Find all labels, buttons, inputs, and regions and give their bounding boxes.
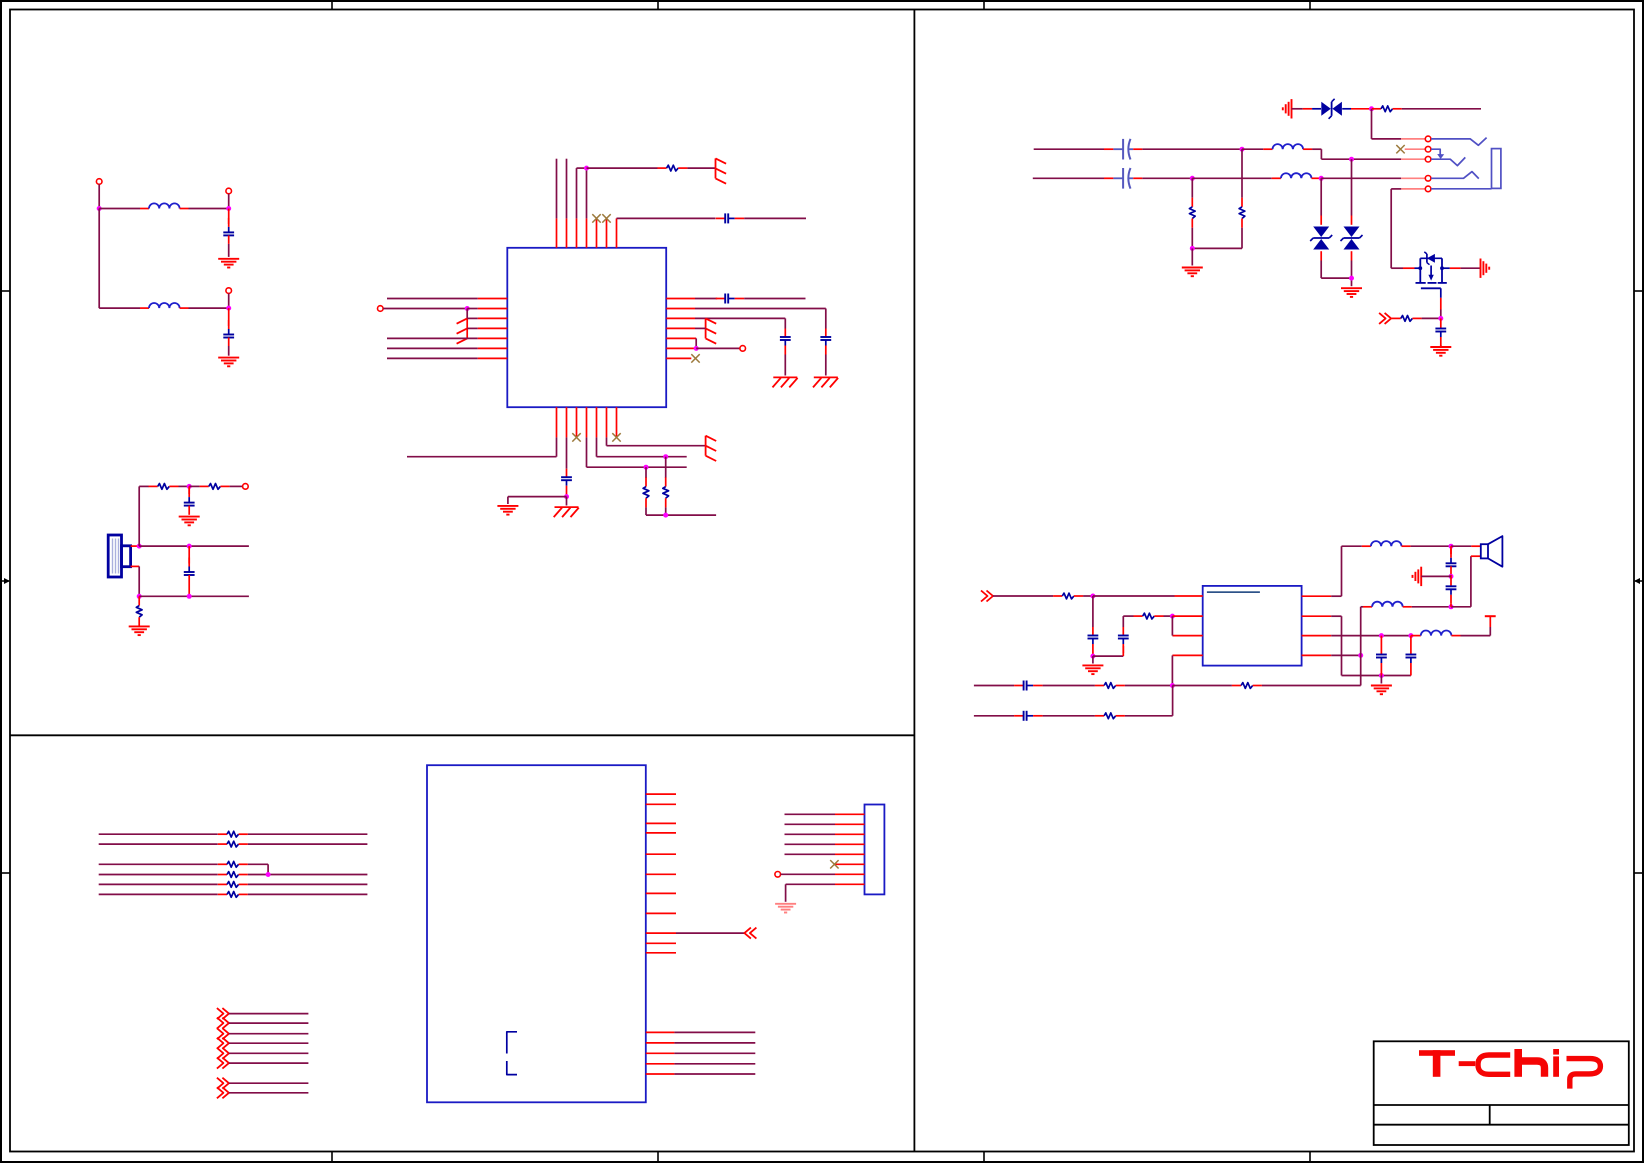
capacitor C14 (1118, 616, 1129, 656)
ground GND15 (1371, 686, 1392, 695)
wire node A1 to L1 (99, 208, 140, 210)
wire U1 bottom pin4 elbow (587, 437, 687, 467)
wire C14 top elbow to R12 (1123, 615, 1133, 617)
U1 left pins (478, 299, 508, 359)
wire node E2 to C14 (1093, 655, 1123, 657)
resistor R16 (218, 831, 248, 837)
junction node E6 (1379, 673, 1384, 678)
no-connect X CN1 pin6 (830, 860, 838, 868)
inductor L5 (1362, 541, 1411, 546)
U1 right pin7 no-connect (666, 354, 700, 362)
junction node E7 (1379, 633, 1384, 638)
inductor L6 (1421, 630, 1461, 635)
ground GND13 (1430, 347, 1451, 356)
border zone ticks bottom (332, 1152, 1310, 1163)
wire R10 to node D8 (1422, 317, 1441, 319)
wire U1 right row5 elbow (666, 338, 696, 348)
wire rail2 left (974, 715, 1014, 717)
capacitor C9 (561, 469, 572, 497)
junction node B1 (187, 484, 192, 489)
wire node C4 left elbow (508, 497, 567, 504)
wire L7 to node E10 (1412, 606, 1451, 608)
capacitor C16 (1014, 711, 1043, 721)
wire P2 to node A2 (228, 194, 230, 209)
capacitor C2 (223, 308, 234, 356)
wire U3 lower row3 (674, 1052, 755, 1054)
jack J1 switch arrow (1431, 149, 1444, 159)
wire L6 to T-power (1461, 635, 1491, 637)
wire row B left (1033, 177, 1104, 179)
op-amp U1 body (507, 248, 666, 407)
wire CN1 row1 (785, 813, 836, 815)
junction node E3 (1170, 614, 1175, 619)
sheet entry chevron F2 (217, 1018, 229, 1029)
wire entry G1 (229, 1082, 309, 1084)
wire U1 right row4 stub (695, 327, 706, 329)
wire U1 right row3 elbow (695, 318, 785, 328)
wire Q1 source to ground (1442, 267, 1481, 269)
resistor R1 (149, 484, 179, 490)
wire L5 to node E5 (1411, 545, 1451, 547)
wire P5 to node C2 (383, 308, 467, 310)
wire node D1 to L3 (1242, 148, 1263, 150)
capacitor C19 (1446, 546, 1457, 575)
wire node B1 to R2 (189, 485, 199, 487)
transistor Q1 mosfet (1415, 252, 1447, 298)
jack J1 contact hook3 (1431, 157, 1465, 165)
wire U1 right row2 elbow (695, 309, 826, 329)
wire R12 to node E3 (1164, 615, 1173, 617)
wire node B2 up to top rail (138, 486, 140, 546)
amplifier U2 body (1203, 586, 1302, 666)
jack J1 contact hook4 (1431, 172, 1479, 179)
sheet entry chevrons IN2 (981, 591, 993, 602)
resistor R3 (136, 596, 142, 626)
ground GND17 salmon (775, 904, 796, 913)
wire U3 lower row2 (674, 1042, 755, 1044)
wire C10 to node D1 (1142, 148, 1242, 150)
wire bus row6 right (248, 893, 368, 895)
wire C16 to R15 (1043, 715, 1095, 717)
U2 pin4 drop (1172, 655, 1202, 685)
power bar PWR2 on left pins (457, 309, 468, 344)
MCU U3 body (427, 765, 646, 1102)
sheet entry chevron F5 (217, 1048, 229, 1059)
resistor R12 (1134, 613, 1164, 619)
wire CN1 row4 (785, 843, 836, 845)
wire top rail corner (139, 485, 149, 487)
wire R7 R8 bottom rail (1192, 247, 1242, 249)
wire U1 bottom pin5 elbow (597, 437, 687, 456)
wire bus row1 right (248, 833, 368, 835)
junction node B2 (137, 544, 142, 549)
wire U1 right row1 to C6 (695, 298, 717, 300)
wire C19 to node E11 (1450, 575, 1452, 577)
power bar T1 (1485, 616, 1496, 635)
wire C11 to node D3 (1142, 177, 1192, 179)
resistor R7 (1239, 149, 1245, 248)
sheet entry chevrons IN1 (1379, 313, 1391, 324)
junction node D1 (1240, 147, 1245, 152)
wire bus row3 left (99, 863, 218, 865)
jack J1 pin5 lead (1431, 188, 1492, 190)
junction node C3 (694, 346, 699, 351)
port P1 (96, 179, 102, 185)
wire node D6 down to jack pin1 (1372, 109, 1402, 139)
diode D2 TVS (1310, 178, 1351, 278)
wire U1 left row6 (387, 347, 478, 349)
junction node A3 (226, 306, 231, 311)
junction node D2 (1349, 157, 1354, 162)
wire P1 to node A1 (98, 184, 100, 208)
wire U3 pin9 out (676, 932, 744, 934)
jack J1 pin2 no-connect (1396, 145, 1425, 153)
wire top rail to L5 (1342, 545, 1362, 547)
ground GND11 (1341, 288, 1362, 297)
wire node C3 to port P6 (696, 347, 740, 349)
capacitor C13 (1088, 627, 1099, 655)
wire C15 to R13 (1043, 685, 1095, 687)
junction node E9 (1358, 653, 1363, 658)
wire node D4 to jack pin4 (1321, 177, 1401, 179)
junction node E4 (1170, 683, 1175, 688)
wire node B2 right (139, 545, 249, 547)
port P5 (378, 306, 384, 312)
border zone ticks right (1634, 291, 1643, 873)
title block row line1 (1374, 1104, 1629, 1106)
U1 top pins (557, 218, 617, 247)
wire R1 to node B1 (179, 485, 190, 487)
wire C6 right (744, 298, 805, 300)
wire U3 lower row1 (674, 1031, 755, 1033)
wire bus row2 right (248, 843, 368, 845)
U1 right pins (666, 299, 695, 349)
pin LS1 bottom (131, 565, 140, 567)
title block frame (1374, 1041, 1629, 1145)
U2 right pin2 drop (1302, 616, 1342, 675)
power bar PWR4 (706, 436, 717, 461)
sheet entry chevron F6 (217, 1058, 229, 1069)
wire GND10 to D1 diode (1292, 108, 1322, 110)
resistor R18 (218, 861, 248, 867)
U3 bracket graphic bottom (507, 1061, 517, 1075)
title block row line2 (1374, 1124, 1629, 1126)
junction node E8 (1408, 633, 1413, 638)
wire node E5 to speaker (1451, 545, 1481, 547)
ground GND14 (1082, 665, 1103, 674)
wire U3 lower row5 (674, 1073, 755, 1075)
ground GND12 rotated (1481, 259, 1490, 278)
junction node A1 (97, 206, 102, 211)
inductor L3 (1263, 144, 1312, 149)
wire U1 bottom pin2 drop (566, 437, 568, 468)
wire entry F3 (229, 1033, 309, 1035)
resistor R13 (1095, 683, 1125, 689)
ground GND9 (1182, 268, 1203, 277)
junction node E5 (1449, 544, 1454, 549)
wire C5 right (744, 217, 806, 219)
jack J1 pin1 (1401, 138, 1425, 140)
wire entry F4 (229, 1042, 309, 1044)
pin LS1 top (131, 545, 140, 547)
jack J1 pin5 (1401, 188, 1425, 190)
title block column line (1489, 1105, 1491, 1125)
inductor L1 (140, 203, 189, 208)
wire Q1 gate down (1440, 298, 1442, 319)
U2 pin3 riser (1172, 616, 1202, 636)
inductor L7 (1363, 602, 1412, 607)
wire pin2 rail right (1342, 675, 1411, 677)
capacitor C17 (1376, 636, 1387, 676)
center arrow left edge (1, 578, 10, 584)
wire U1 top pin4 riser (586, 168, 588, 218)
inductor L2 (99, 303, 188, 308)
wire bus row5 right (248, 883, 368, 885)
resistor R11 (1053, 593, 1083, 599)
U2 right pin1 riser (1302, 546, 1342, 596)
resistor R9 (1372, 106, 1402, 112)
wire bottom rail of R5 R6 (646, 514, 716, 516)
wire R4 to power bar (687, 167, 715, 169)
junction node C5b (644, 465, 649, 470)
wire CN1 row5 (785, 853, 836, 855)
wire U1 top pin7 elbow (617, 217, 716, 219)
port P7 (775, 872, 781, 878)
resistor R6 (663, 457, 669, 515)
ground GND4 (129, 626, 150, 635)
port P4 (243, 484, 249, 490)
junction node F1 (266, 872, 271, 877)
sheet entry chevron F4 (217, 1038, 229, 1049)
wire L1 to node A2 (189, 208, 229, 210)
wire node E6 ground stub (1380, 676, 1382, 684)
resistor R8 (1189, 178, 1195, 248)
wire U1 top pin1 stub (556, 159, 558, 219)
junction node C6b (663, 454, 668, 459)
no-connect X bottom pin7 (612, 433, 620, 441)
power bar PWR3 (706, 318, 717, 343)
wire entry F2 (229, 1022, 309, 1024)
resistor R2 (200, 484, 230, 490)
junction node D6 (1369, 106, 1374, 111)
wire row3 elbow to row4 (248, 864, 268, 874)
junction node D8 (1438, 316, 1443, 321)
connector CN1 pins (835, 814, 865, 884)
wire bus row1 left (99, 833, 218, 835)
U3 right pins (646, 794, 676, 953)
jack J1 pin3 (1401, 158, 1425, 160)
wire L3 elbow down (1312, 149, 1401, 159)
U2 right pin4 row (1302, 654, 1361, 656)
capacitor C8 (780, 329, 791, 376)
ground GND5 slashed (813, 377, 838, 387)
wire entry F6 (229, 1062, 309, 1064)
ground GND10 rotated (1283, 99, 1292, 118)
junction node A2 (226, 206, 231, 211)
connector CN1 body (865, 805, 885, 895)
wire R11 to node E1 (1083, 595, 1093, 597)
wire entry F1 (229, 1013, 309, 1015)
wire U1 left row3 stub (467, 317, 478, 319)
wire U1 left row7 (387, 357, 478, 359)
jack J1 contact hook1 (1431, 138, 1487, 146)
wire U1 top pin2 stub (566, 159, 568, 219)
wire GND16 to node E11 (1421, 575, 1451, 577)
wire node C4 down stub (566, 497, 568, 506)
wire bus row4 left (99, 874, 218, 876)
capacitor C10 polarized (1104, 139, 1142, 160)
no-connect X bottom pin3 (572, 433, 580, 441)
wire CN1 pin8 elbow (786, 884, 835, 902)
junction node C7b (663, 513, 668, 518)
T-Chip logo (1419, 1049, 1600, 1089)
diode D3 TVS (1341, 159, 1363, 286)
bottom rail wire (139, 595, 249, 597)
wire entry G2 (229, 1092, 309, 1094)
wire R2 to port P4 (230, 485, 243, 487)
junction node C2 (465, 306, 470, 311)
jack J1 sleeve (1492, 149, 1501, 189)
junction node B4 (137, 594, 142, 599)
capacitor C3 (184, 486, 195, 514)
capacitor C7 (820, 329, 831, 376)
junction node D5 (1190, 246, 1195, 251)
sheet entry chevron G1 (217, 1078, 229, 1089)
wire IN2 to R11 (993, 595, 1053, 597)
wire U1 bottom pin1 elbow (407, 437, 557, 456)
wire bus row4 right (248, 874, 368, 876)
capacitor C4 (184, 546, 195, 596)
resistor R4 (657, 165, 687, 171)
wire U1 left row4 stub (467, 327, 478, 329)
resistor R10 (1392, 316, 1422, 322)
ground GND16 rotated (1413, 567, 1422, 586)
junction node E10 (1449, 604, 1454, 609)
ground GND2 (218, 358, 239, 367)
capacitor C15 (1014, 681, 1043, 691)
wire CN1 row2 (785, 823, 836, 825)
ground GND1 (218, 259, 239, 268)
speaker LS2 (1481, 536, 1503, 567)
capacitor C5 (716, 213, 745, 223)
port P3 (226, 288, 232, 294)
wire bus row2 left (99, 843, 218, 845)
wire node E2 stub (1092, 656, 1094, 663)
ground GND6 slashed (773, 377, 798, 387)
junction node E2 (1090, 654, 1095, 659)
wire node E1 to U2 pin1 (1093, 595, 1203, 597)
U3 lower pins (646, 1032, 675, 1074)
junction node D7 (1349, 276, 1354, 281)
speaker LS1 body (108, 535, 130, 577)
wire LS1 bottom elbow (138, 566, 140, 596)
junction node D4 (1319, 176, 1324, 181)
wire bus row6 left (99, 893, 218, 895)
no-connect X top pin5 (592, 214, 600, 222)
inductor L4 (1272, 173, 1321, 178)
wire node D5 to ground (1191, 248, 1193, 265)
capacitor C18 (1406, 636, 1417, 676)
wire node D3 to L4 (1192, 177, 1271, 179)
ground GND8 slashed (554, 507, 579, 517)
wire node E10 to speaker bottom (1451, 556, 1481, 607)
U3 bracket graphic top (507, 1032, 517, 1054)
resistor R15 (1095, 713, 1125, 719)
junction node D3 (1190, 176, 1195, 181)
wire pin3 to L6 (1411, 635, 1421, 637)
riser rail1 to lower speaker feed (1361, 607, 1363, 686)
wire node C1 to R4 (587, 167, 658, 169)
wire row A left (1034, 148, 1104, 150)
diode D1 TVS (1321, 99, 1342, 119)
wire P7 to CN1 pin7 (781, 873, 835, 875)
capacitor C20 (1446, 576, 1457, 606)
jack J1 pin4 (1401, 177, 1425, 179)
wire CN1 row3 (785, 833, 836, 835)
wire P3 to node A3 (228, 294, 230, 309)
capacitor C1 (223, 209, 234, 257)
wire R9 right (1402, 108, 1481, 110)
power bar PWR1 (716, 158, 727, 183)
wire node A1 down to L2 (98, 209, 100, 309)
wire U1 left row1 (387, 298, 478, 300)
border zone ticks top (332, 1, 1310, 10)
wire entry F5 (229, 1052, 309, 1054)
resistor R19 (218, 872, 248, 878)
wire U1 top pin3 elbow (577, 168, 587, 218)
wire bus row5 left (99, 883, 218, 885)
no-connect X top pin6 (602, 214, 610, 222)
U2 hidden label line (1207, 591, 1260, 593)
capacitor C6 (716, 294, 745, 304)
wire U1 left row5 (387, 337, 478, 339)
sheet exit chevron H1 (744, 928, 756, 939)
sheet entry chevron G2 (217, 1087, 229, 1098)
wire L2 to node A3 (189, 307, 229, 309)
junction node E1 (1090, 594, 1095, 599)
resistor R21 (218, 892, 248, 898)
wire node E3 to U2 pin2 (1172, 615, 1202, 617)
wire R13 to node E4 (1125, 685, 1173, 687)
ground GND7 (497, 506, 518, 515)
wire R15 elbow to node E4 (1125, 686, 1173, 716)
port P6 (740, 346, 746, 352)
junction node C4 (564, 494, 569, 499)
border zone ticks left (1, 291, 10, 873)
junction node C1 (584, 166, 589, 171)
resistor R17 (218, 841, 248, 847)
junction node E11 (1449, 574, 1454, 579)
resistor R20 (218, 882, 248, 888)
capacitor C12 (1435, 318, 1446, 346)
sheet entry chevron F3 (217, 1028, 229, 1039)
section divider horizontal (10, 734, 914, 736)
junction node B3 (187, 544, 192, 549)
section divider vertical (913, 10, 915, 1152)
wire U3 lower row4 (674, 1063, 755, 1065)
wire jack pin5 elbow to Q1 (1391, 189, 1414, 268)
wire rail1 left (974, 685, 1014, 687)
port P2 (226, 188, 232, 194)
jack J1 terminal rings (1425, 136, 1431, 192)
resistor R5 (643, 467, 649, 515)
resistor R14 (1232, 683, 1262, 689)
U1 bottom pins (557, 407, 617, 437)
wire node E4 to R14 (1172, 685, 1232, 687)
wire node C2 to pin (467, 308, 478, 310)
wire R14 to riser (1262, 685, 1361, 687)
center arrow right edge (1634, 578, 1643, 584)
